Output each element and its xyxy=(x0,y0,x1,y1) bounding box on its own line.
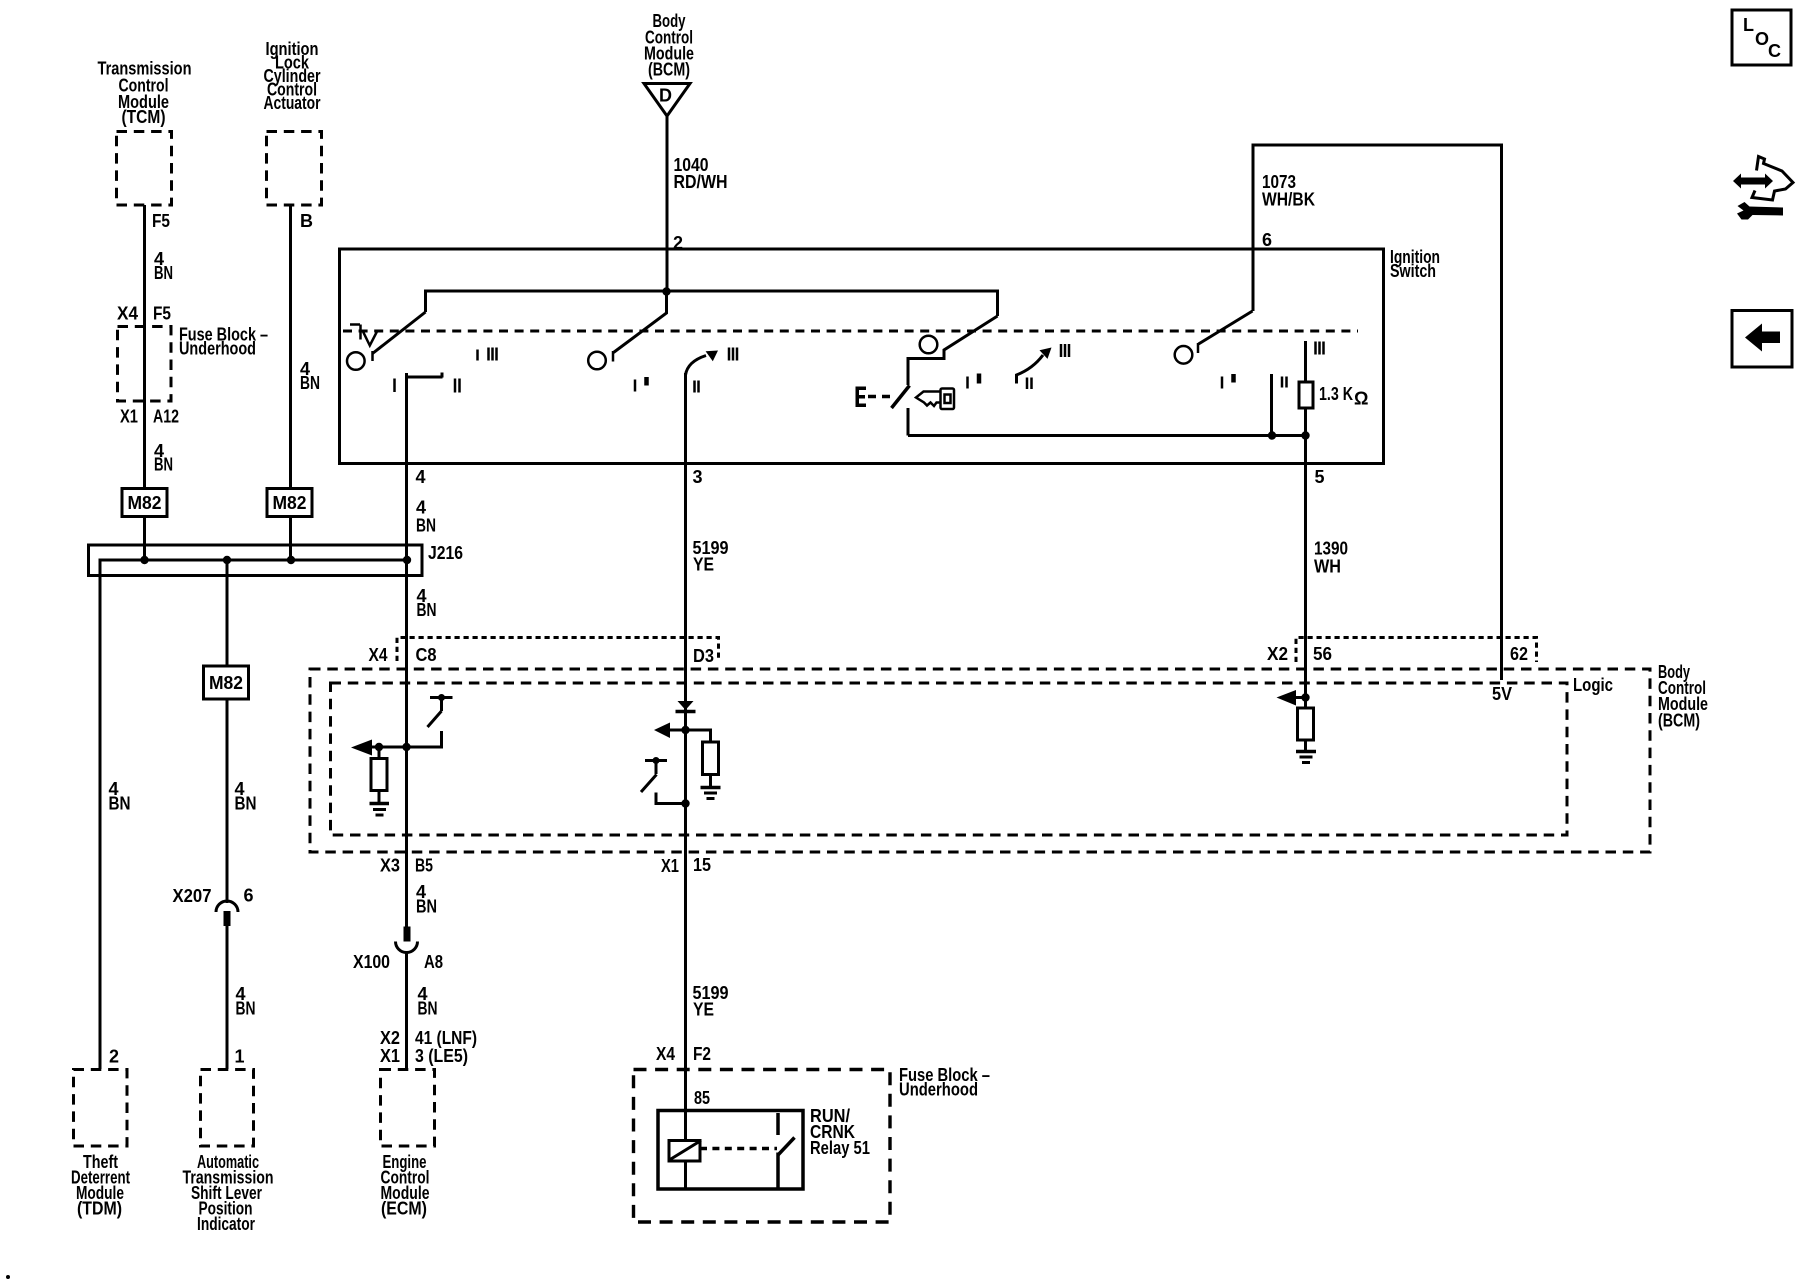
svg-text:X4: X4 xyxy=(656,1044,675,1064)
svg-text:5V: 5V xyxy=(1492,684,1512,704)
svg-text:A8: A8 xyxy=(424,952,443,972)
svg-text:C8: C8 xyxy=(416,645,437,665)
svg-text:Relay 51: Relay 51 xyxy=(810,1138,870,1158)
svg-text:F2: F2 xyxy=(693,1044,711,1064)
svg-text:(BCM): (BCM) xyxy=(648,60,690,80)
svg-text:56: 56 xyxy=(1313,644,1332,664)
svg-text:BN: BN xyxy=(235,794,257,814)
svg-text:WH: WH xyxy=(1314,557,1341,577)
svg-text:YE: YE xyxy=(693,1000,714,1020)
svg-text:41 (LNF): 41 (LNF) xyxy=(415,1028,477,1048)
svg-text:6: 6 xyxy=(1262,230,1272,250)
svg-text:Ω: Ω xyxy=(1354,389,1368,409)
svg-text:B: B xyxy=(300,211,313,231)
svg-text:5: 5 xyxy=(1315,467,1325,487)
svg-text:X4: X4 xyxy=(117,304,138,324)
svg-text:X1: X1 xyxy=(120,407,138,427)
svg-text:BN: BN xyxy=(418,999,438,1019)
svg-text:15: 15 xyxy=(693,855,711,875)
svg-text:X100: X100 xyxy=(353,952,390,972)
svg-text:4: 4 xyxy=(416,467,426,487)
svg-text:X2: X2 xyxy=(1267,644,1288,664)
svg-text:M82: M82 xyxy=(128,493,162,513)
svg-text:3: 3 xyxy=(693,467,703,487)
svg-text:1: 1 xyxy=(235,1047,245,1067)
svg-text:(BCM): (BCM) xyxy=(1658,711,1700,731)
svg-text:F5: F5 xyxy=(153,304,171,324)
svg-text:L: L xyxy=(1743,15,1754,35)
svg-text:85: 85 xyxy=(694,1088,710,1108)
svg-text:B5: B5 xyxy=(415,856,433,876)
svg-text:BN: BN xyxy=(300,373,320,393)
svg-text:X1: X1 xyxy=(661,856,679,876)
svg-text:BN: BN xyxy=(154,263,173,283)
svg-text:(TCM): (TCM) xyxy=(122,107,166,127)
svg-text:X1: X1 xyxy=(380,1046,400,1066)
svg-text:WH/BK: WH/BK xyxy=(1262,190,1315,210)
svg-text:X207: X207 xyxy=(173,886,212,906)
svg-text:1.3 K: 1.3 K xyxy=(1319,384,1353,404)
svg-text:(TDM): (TDM) xyxy=(77,1199,122,1219)
svg-text:2: 2 xyxy=(673,233,683,253)
svg-text:BN: BN xyxy=(416,516,436,536)
svg-text:M82: M82 xyxy=(209,673,243,693)
svg-text:YE: YE xyxy=(693,555,714,575)
svg-text:BN: BN xyxy=(154,455,173,475)
svg-text:Actuator: Actuator xyxy=(264,93,321,113)
svg-text:1390: 1390 xyxy=(1314,539,1348,559)
svg-text:Logic: Logic xyxy=(1573,675,1613,695)
svg-text:3 (LE5): 3 (LE5) xyxy=(415,1046,468,1066)
svg-text:C: C xyxy=(1768,41,1781,61)
svg-text:Switch: Switch xyxy=(1390,261,1436,281)
svg-text:Underhood: Underhood xyxy=(899,1080,978,1100)
svg-text:RD/WH: RD/WH xyxy=(674,172,728,192)
svg-text:Underhood: Underhood xyxy=(179,339,256,359)
svg-text:BN: BN xyxy=(417,600,437,620)
svg-text:X2: X2 xyxy=(380,1028,400,1048)
svg-text:Indicator: Indicator xyxy=(197,1214,255,1234)
svg-text:X4: X4 xyxy=(369,645,388,665)
svg-text:BN: BN xyxy=(109,794,131,814)
svg-text:6: 6 xyxy=(244,886,254,906)
svg-text:M82: M82 xyxy=(273,493,307,513)
svg-text:F5: F5 xyxy=(152,211,170,231)
svg-text:X3: X3 xyxy=(380,856,400,876)
svg-text:62: 62 xyxy=(1510,644,1528,664)
svg-text:J216: J216 xyxy=(428,543,463,563)
svg-text:A12: A12 xyxy=(153,407,179,427)
svg-text:4: 4 xyxy=(416,498,426,518)
svg-text:D3: D3 xyxy=(693,646,714,666)
svg-text:O: O xyxy=(1755,29,1769,49)
svg-text:D: D xyxy=(659,86,672,106)
svg-text:2: 2 xyxy=(109,1047,119,1067)
svg-text:BN: BN xyxy=(416,897,437,917)
svg-text:(ECM): (ECM) xyxy=(381,1199,427,1219)
svg-text:BN: BN xyxy=(236,999,256,1019)
